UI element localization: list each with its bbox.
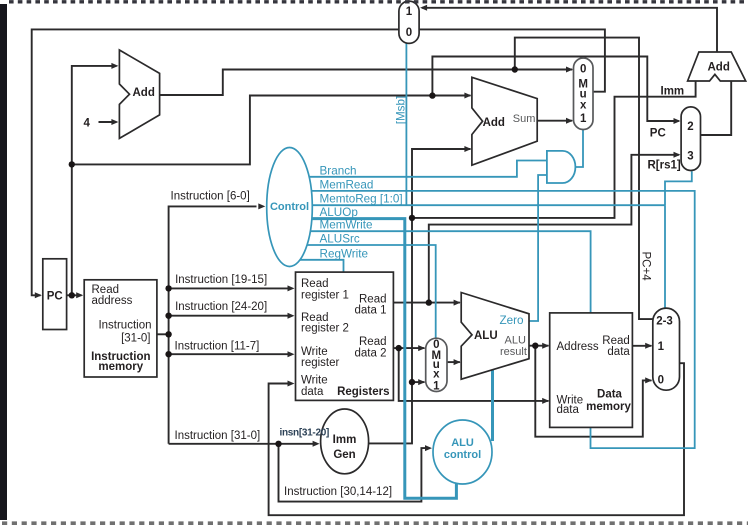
wire 4 into Add bbox=[99, 121, 117, 123]
mux M5 (PC/R[rs1] mux 2/3) bbox=[681, 107, 700, 171]
svg-text:register: register bbox=[301, 357, 340, 369]
svg-text:Branch: Branch bbox=[320, 164, 357, 177]
arrow into PC-mux input 2 bbox=[674, 118, 681, 124]
arrow into Read address bbox=[76, 292, 83, 298]
wire next-PC from mux M4 to PC bbox=[32, 29, 399, 295]
arrow into Data memory Write data bbox=[542, 398, 549, 404]
svg-text:Instruction [24-20]: Instruction [24-20] bbox=[175, 301, 267, 313]
node PC tap for PC-mux bbox=[429, 92, 435, 98]
svg-text:0: 0 bbox=[580, 63, 586, 75]
ALU control ellipse bbox=[433, 420, 492, 484]
wire mux M2 output to mux M4 input 0 bbox=[419, 29, 605, 91]
data memory bbox=[550, 313, 633, 428]
svg-text:ALUOp: ALUOp bbox=[320, 206, 359, 219]
svg-text:data 1: data 1 bbox=[355, 305, 387, 317]
wire ALU control output to ALU (thick) bbox=[491, 369, 494, 441]
wire PC up to Add (PC+4) bbox=[72, 66, 117, 295]
mux M4 (next PC select 1/0) bbox=[399, 1, 419, 43]
arrow into Write register bbox=[288, 351, 295, 357]
svg-text:Sum: Sum bbox=[513, 113, 536, 125]
node instr memory output junction bbox=[165, 331, 171, 337]
arrow into mux M4 input 1 (points left) bbox=[420, 5, 427, 11]
svg-text:Read: Read bbox=[359, 293, 387, 305]
arrow into final mux input 0 bbox=[645, 377, 652, 383]
arrow into PC bbox=[35, 292, 42, 298]
svg-text:Read: Read bbox=[301, 278, 329, 290]
svg-text:memory: memory bbox=[586, 401, 631, 413]
left black bar bbox=[0, 4, 7, 520]
svg-text:data: data bbox=[607, 346, 630, 358]
svg-text:ALU: ALU bbox=[505, 335, 526, 347]
wire MemtoReg up to PC-mux select bbox=[665, 171, 692, 205]
AND gate bbox=[547, 151, 575, 183]
wire Instruction [31-0] to Imm Gen bbox=[169, 443, 317, 445]
arrow into mux M2 input 0 bbox=[566, 67, 573, 73]
svg-text:Read: Read bbox=[602, 335, 630, 347]
arrow into Write data bbox=[288, 381, 295, 387]
svg-text:x: x bbox=[580, 100, 587, 112]
wire PC tap to PC-mux input 2 bbox=[432, 57, 678, 122]
svg-text:x: x bbox=[433, 369, 440, 381]
svg-text:0: 0 bbox=[406, 27, 412, 39]
svg-text:MemWrite: MemWrite bbox=[320, 219, 373, 232]
svg-text:PC: PC bbox=[650, 127, 666, 139]
CONTROL WIRES (teal) bbox=[300, 43, 695, 498]
wire ALU result to Data memory Address bbox=[529, 345, 549, 347]
wire ALUSrc to ALU mux select bbox=[306, 245, 435, 338]
wire Read data 2 to ALU mux input 0 bbox=[393, 347, 424, 349]
svg-text:Gen: Gen bbox=[333, 449, 355, 461]
wire Imm to Add3 bbox=[412, 80, 696, 218]
node PC+4 tap bbox=[512, 66, 518, 72]
svg-text:Instruction [19-15]: Instruction [19-15] bbox=[175, 274, 267, 286]
svg-text:register 2: register 2 bbox=[301, 323, 349, 335]
arrow into Data memory Address bbox=[542, 343, 549, 349]
svg-text:1: 1 bbox=[433, 381, 440, 393]
node imm tap to ALU mux bbox=[409, 379, 415, 385]
arrow into Sum adder bottom bbox=[464, 146, 471, 152]
svg-text:Instruction [30,14-12]: Instruction [30,14-12] bbox=[284, 486, 392, 498]
svg-text:register 1: register 1 bbox=[301, 289, 349, 301]
arrow into Read register 2 bbox=[288, 313, 295, 319]
arrow into Add1 from 4 bbox=[111, 119, 118, 125]
wire PC+4 branch up to PC+4 column bbox=[515, 38, 653, 320]
svg-text:data 2: data 2 bbox=[355, 347, 387, 359]
svg-text:address: address bbox=[92, 295, 133, 307]
arrow into Read register 1 bbox=[288, 285, 295, 291]
svg-text:[Msb]: [Msb] bbox=[395, 96, 408, 125]
mux M1 (ALU src mux 0/1) bbox=[426, 338, 447, 391]
arrow into ALU top input bbox=[454, 300, 461, 306]
wire instruction memory output bbox=[157, 333, 169, 335]
svg-text:Address: Address bbox=[557, 341, 599, 353]
svg-text:Control: Control bbox=[270, 201, 309, 213]
svg-text:Instruction [11-7]: Instruction [11-7] bbox=[175, 340, 260, 352]
ARROWHEADS bbox=[35, 5, 681, 451]
ALU bbox=[461, 293, 529, 380]
wire MemtoReg [1:0] bbox=[312, 204, 665, 206]
svg-text:PC+4: PC+4 bbox=[639, 252, 651, 282]
svg-text:Registers: Registers bbox=[337, 386, 389, 398]
node read data 2 tap bbox=[396, 345, 402, 351]
svg-text:Read: Read bbox=[359, 336, 387, 348]
node instr tap 24-20 bbox=[165, 313, 171, 319]
wire Branch to AND gate bbox=[309, 161, 547, 177]
svg-text:4: 4 bbox=[84, 118, 91, 130]
svg-text:3: 3 bbox=[687, 151, 693, 163]
adder Add3 (PC/R[rs1] + Imm) bbox=[688, 52, 746, 81]
adder Add1 (PC+4) bbox=[119, 50, 159, 138]
node ALU result tap bbox=[532, 343, 538, 349]
svg-text:memory: memory bbox=[98, 361, 143, 373]
arrow into ALU control bbox=[425, 445, 432, 451]
bottom dashed border bbox=[2, 521, 748, 525]
svg-text:1: 1 bbox=[406, 6, 413, 18]
svg-text:Zero: Zero bbox=[500, 314, 525, 327]
arrow into mux M2 input 1 bbox=[566, 118, 573, 124]
svg-text:Add: Add bbox=[133, 87, 155, 99]
svg-text:Add: Add bbox=[708, 62, 730, 74]
node instr tap 11-7 bbox=[165, 351, 171, 357]
svg-text:RegWrite: RegWrite bbox=[320, 247, 369, 260]
node imm tap to Add3 bbox=[409, 215, 415, 221]
svg-text:Imm: Imm bbox=[333, 434, 357, 446]
imm gen ellipse bbox=[321, 409, 369, 474]
wire PC-mux output to Add3 bbox=[701, 80, 732, 135]
wire Add3 output to mux M4 input 1 bbox=[422, 8, 717, 52]
svg-text:1: 1 bbox=[658, 341, 665, 353]
svg-text:[31-0]: [31-0] bbox=[121, 332, 150, 344]
control unit ellipse bbox=[267, 148, 313, 267]
wire ALU result to final mux input 0 bbox=[535, 346, 651, 437]
svg-text:R[rs1]: R[rs1] bbox=[648, 160, 681, 172]
wire Zero to AND gate bbox=[529, 175, 547, 321]
svg-text:ALU: ALU bbox=[474, 330, 498, 342]
svg-text:data: data bbox=[301, 386, 324, 398]
wire Data memory Read data to final mux input 1 bbox=[632, 345, 651, 347]
wire Add2 Sum output to mux M2 input 1 bbox=[537, 120, 572, 122]
svg-text:result: result bbox=[500, 346, 527, 358]
wire RegWrite to Registers bbox=[300, 260, 344, 272]
svg-text:1: 1 bbox=[580, 113, 587, 125]
svg-text:MemtoReg [1:0]: MemtoReg [1:0] bbox=[320, 193, 403, 206]
svg-text:0: 0 bbox=[658, 375, 664, 387]
wire Instruction [11-7] to Write register bbox=[169, 353, 292, 355]
wire ALUOp to ALU control (thick) bbox=[312, 219, 457, 499]
wire Read data 1 to ALU bbox=[393, 302, 460, 304]
svg-text:PC: PC bbox=[47, 291, 63, 303]
svg-text:Instruction [31-0]: Instruction [31-0] bbox=[175, 430, 261, 442]
wire MemRead to Data memory (bottom) bbox=[311, 191, 695, 448]
wire MemtoReg select of mux M4 ([Msb]) bbox=[405, 43, 407, 205]
svg-text:Instruction [6-0]: Instruction [6-0] bbox=[171, 190, 250, 202]
wire Add1 output PC+4 bbox=[160, 70, 573, 96]
arrow into Add1 top bbox=[111, 63, 118, 69]
node PC output junction bbox=[69, 292, 75, 298]
arrow into ALU mux input 1 bbox=[418, 379, 425, 385]
wire PC output to instruction memory bbox=[67, 294, 82, 296]
arrow into final mux input 1 bbox=[645, 343, 652, 349]
wire MemWrite to Data memory (top) bbox=[310, 231, 591, 313]
registers bbox=[296, 272, 394, 400]
svg-text:Instruction: Instruction bbox=[98, 320, 151, 332]
svg-text:data: data bbox=[557, 404, 580, 416]
node instr tap 19-15 bbox=[165, 285, 171, 291]
svg-text:2-3: 2-3 bbox=[656, 316, 673, 328]
arrow into ALU mux input 0 bbox=[418, 345, 425, 351]
svg-text:MemRead: MemRead bbox=[320, 178, 374, 191]
svg-text:control: control bbox=[444, 449, 481, 461]
wire AND gate output to mux M2 select bbox=[575, 130, 583, 167]
arrow into ALU bottom input bbox=[454, 359, 461, 365]
wire PC to Sum adder top input bbox=[72, 96, 471, 165]
arrow into PC-mux input 3 bbox=[674, 152, 681, 158]
node PC tap for Sum adder bbox=[69, 161, 75, 167]
mux M3 (write-back mux 2-3/1/0) bbox=[653, 308, 680, 390]
wire ALU mux output to ALU bbox=[447, 361, 460, 363]
wire MemtoReg down to final mux select bbox=[664, 205, 666, 308]
wire Instruction [24-20] to Read register 2 bbox=[169, 315, 292, 317]
arrow into Imm Gen bbox=[313, 441, 320, 447]
svg-text:2: 2 bbox=[687, 121, 693, 133]
wire Imm to ALU mux input 1 bbox=[412, 381, 425, 383]
wire instruction bus vertical bbox=[169, 206, 257, 443]
arrow into Control bbox=[258, 203, 265, 209]
wire Instruction [19-15] to Read register 1 bbox=[169, 287, 292, 289]
svg-text:ALUSrc: ALUSrc bbox=[320, 233, 360, 246]
svg-text:Write: Write bbox=[301, 375, 328, 387]
wire write-back from final mux to Registers Write data bbox=[269, 363, 684, 515]
node read data 1 tap R[rs1] bbox=[426, 299, 432, 305]
node instr tap 31-20 imm gen bbox=[275, 441, 281, 447]
mux M2 (branch mux 0/1) bbox=[574, 58, 594, 130]
svg-text:insn[31-20]: insn[31-20] bbox=[280, 428, 330, 439]
wire R[rs1] to PC-mux input 3 bbox=[429, 155, 679, 303]
PC register bbox=[43, 259, 67, 330]
top dashed border bbox=[9, 0, 748, 3]
wire Read data 2 to Data memory Write data bbox=[399, 348, 549, 401]
wire Instruction [30,14-12] to ALU control bbox=[279, 444, 430, 502]
svg-text:Imm: Imm bbox=[661, 86, 685, 98]
svg-text:Data: Data bbox=[597, 389, 623, 401]
svg-text:Add: Add bbox=[483, 117, 505, 129]
instruction memory bbox=[84, 280, 157, 377]
adder Add2 (Sum, branch target) bbox=[472, 77, 537, 165]
svg-text:ALU: ALU bbox=[451, 437, 474, 449]
arrow into Sum adder top bbox=[464, 93, 471, 99]
wire Imm vertical from Imm Gen bbox=[369, 149, 471, 443]
